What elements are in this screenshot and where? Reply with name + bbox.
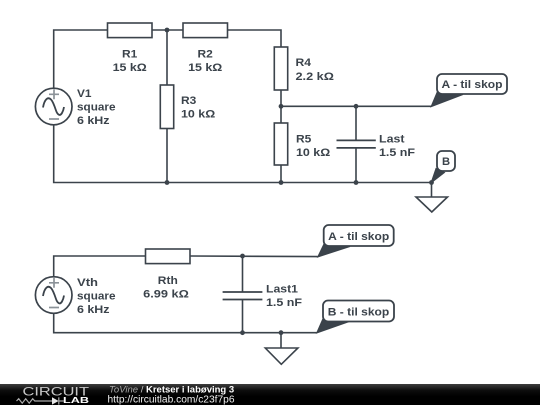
resistor Rth xyxy=(146,249,191,264)
svg-text:A - til skop: A - til skop xyxy=(442,79,503,91)
net flag B (top) xyxy=(431,151,455,183)
wire mid rail node to A flag xyxy=(281,105,431,107)
wire capacitor Last top xyxy=(355,106,357,140)
wire R2 to top-right corner down to R4 xyxy=(228,30,282,47)
svg-text:B: B xyxy=(442,156,450,168)
svg-text:http://circuitlab.com/c23f7p6: http://circuitlab.com/c23f7p6 xyxy=(108,395,235,405)
wire Rth to A flag xyxy=(190,255,318,258)
wire capacitor Last1 top xyxy=(242,256,244,292)
wire bottom rail bottom circuit xyxy=(54,314,317,333)
voltage source Vth xyxy=(35,277,72,314)
svg-text:square: square xyxy=(77,102,116,114)
svg-text:square: square xyxy=(77,291,116,303)
resistor R5 xyxy=(274,123,287,165)
svg-text:10 kΩ: 10 kΩ xyxy=(181,109,215,121)
node dot R1-R2-R3 xyxy=(165,28,170,33)
svg-text:B - til skop: B - til skop xyxy=(328,306,390,318)
net flag A - til skop (bottom) xyxy=(318,225,394,257)
svg-text:R3: R3 xyxy=(181,95,196,107)
node dot Last1 bottom xyxy=(240,330,245,335)
footer bar xyxy=(0,384,540,405)
resistor R3 xyxy=(160,85,173,129)
svg-text:1.5 nF: 1.5 nF xyxy=(379,147,415,159)
wire top rail from V1 to R1 xyxy=(54,30,108,88)
logo resistor zigzag and diode xyxy=(17,397,65,404)
voltage source V1 xyxy=(35,88,72,125)
node dot ground bottom circuit xyxy=(279,330,284,335)
wire R5 top xyxy=(280,106,282,123)
capacitor Last1 plates xyxy=(223,292,263,300)
svg-text:Last: Last xyxy=(379,134,405,146)
resistor R4 xyxy=(274,47,287,90)
svg-text:15 kΩ: 15 kΩ xyxy=(188,62,222,74)
node dot ground top circuit xyxy=(429,180,434,185)
wire R1 to R2 with node xyxy=(152,29,183,31)
wire R5 bottom xyxy=(280,165,282,183)
node dot cap Last top xyxy=(354,104,359,109)
node dot R3 bottom xyxy=(165,180,170,185)
wire bottom rail top circuit xyxy=(54,125,432,183)
svg-text:R4: R4 xyxy=(296,57,312,69)
node dot R4-R5 mid rail xyxy=(279,104,284,109)
wire R4 bottom to node xyxy=(280,90,282,106)
svg-text:Rth: Rth xyxy=(158,275,178,287)
wire ground stem bottom xyxy=(280,333,282,348)
svg-text:R2: R2 xyxy=(198,48,213,60)
svg-text:R5: R5 xyxy=(296,134,311,146)
svg-text:1.5 nF: 1.5 nF xyxy=(266,297,302,309)
resistor R2 xyxy=(183,23,228,38)
svg-text:Last1: Last1 xyxy=(266,284,298,296)
capacitor Last plates xyxy=(337,140,376,148)
svg-text:A - til skop: A - til skop xyxy=(328,231,389,243)
svg-text:15 kΩ: 15 kΩ xyxy=(113,62,147,74)
wire capacitor Last bottom xyxy=(355,148,357,183)
wire top rail Vth to Rth xyxy=(54,256,146,276)
net flag A - til skop (top) xyxy=(431,74,507,107)
ground top circuit xyxy=(416,183,448,213)
node dot Last1 top xyxy=(240,254,245,259)
wire R3 top xyxy=(166,30,168,85)
net flag B - til skop (bottom) xyxy=(317,301,394,334)
wire R3 bottom xyxy=(166,129,168,183)
svg-text:Vth: Vth xyxy=(77,277,98,289)
svg-text:6 kHz: 6 kHz xyxy=(77,304,110,316)
svg-text:2.2 kΩ: 2.2 kΩ xyxy=(296,71,334,83)
svg-text:LAB: LAB xyxy=(63,395,89,405)
svg-text:10 kΩ: 10 kΩ xyxy=(296,147,330,159)
svg-text:R1: R1 xyxy=(122,48,137,60)
svg-text:6.99 kΩ: 6.99 kΩ xyxy=(143,289,189,301)
node dot R5 bottom xyxy=(279,180,284,185)
ground bottom circuit xyxy=(265,348,298,364)
node dot cap Last bottom xyxy=(354,180,359,185)
wire capacitor Last1 bottom xyxy=(242,300,244,333)
resistor R1 xyxy=(108,23,153,38)
svg-text:6 kHz: 6 kHz xyxy=(77,115,110,127)
svg-text:V1: V1 xyxy=(77,88,92,100)
